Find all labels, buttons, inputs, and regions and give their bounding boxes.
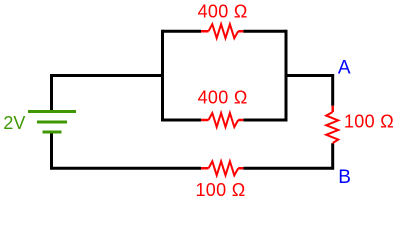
wire middle branch left xyxy=(163,119,202,122)
wire top branch left xyxy=(163,30,202,33)
wire top branch right xyxy=(243,30,286,33)
resistor 400 ohm top leads xyxy=(201,30,243,33)
battery V1 plate medium xyxy=(37,121,67,124)
svg-text:B: B xyxy=(338,167,351,188)
resistor 400 ohm middle zigzag xyxy=(209,113,239,127)
wire output to node A xyxy=(286,76,333,106)
wire right side of parallel block xyxy=(285,30,288,122)
svg-text:400 Ω: 400 Ω xyxy=(198,2,248,22)
svg-text:A: A xyxy=(338,57,351,78)
battery V1 plate long xyxy=(28,110,76,113)
resistor 100 ohm right zigzag xyxy=(326,112,338,143)
resistor 400 ohm top zigzag xyxy=(209,24,239,38)
wire bottom right to node B xyxy=(243,143,332,168)
svg-text:400 Ω: 400 Ω xyxy=(198,88,248,108)
wire from battery bottom to bottom resistor xyxy=(52,133,202,168)
svg-text:100 Ω: 100 Ω xyxy=(344,112,394,132)
wire middle branch right xyxy=(243,119,286,122)
wire left side of parallel block xyxy=(161,30,164,122)
svg-text:100 Ω: 100 Ω xyxy=(196,180,246,200)
resistor 100 ohm right leads xyxy=(331,106,334,144)
resistor 100 ohm bottom leads xyxy=(201,167,243,170)
battery V1 plate short xyxy=(43,131,62,134)
resistor 400 ohm middle leads xyxy=(201,119,243,122)
wire from battery top to parallel block xyxy=(52,76,163,111)
svg-text:2V: 2V xyxy=(3,113,25,133)
resistor 100 ohm bottom zigzag xyxy=(209,161,239,175)
